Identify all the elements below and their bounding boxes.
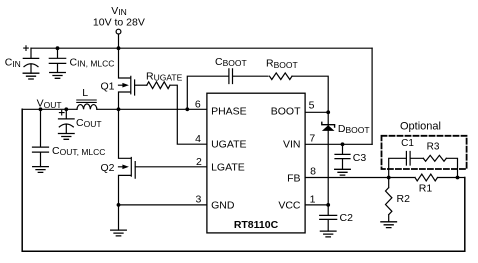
- svg-text:C1: C1: [401, 138, 414, 149]
- ground C2: [320, 231, 336, 237]
- capacitor COUT: [59, 109, 75, 133]
- node junction FB: [387, 176, 391, 180]
- wire PHASE rail left: [22, 108, 77, 110]
- svg-text:VIN: VIN: [111, 5, 127, 17]
- node junction COUT MLCC: [39, 107, 43, 111]
- node junction R1 right: [456, 176, 460, 180]
- svg-text:Optional: Optional: [400, 120, 441, 132]
- inductor L: [77, 104, 97, 109]
- svg-text:VCC: VCC: [278, 199, 301, 211]
- wire FB node to loop corner: [458, 177, 465, 179]
- ground R2: [381, 222, 397, 228]
- node junction VCC: [326, 203, 330, 207]
- svg-text:GND: GND: [211, 199, 235, 211]
- svg-text:3: 3: [195, 194, 201, 206]
- ground COUT: [59, 134, 75, 140]
- capacitor CIN,MLCC: [49, 48, 65, 72]
- svg-text:COUT, MLCC: COUT, MLCC: [52, 145, 105, 157]
- resistor R3: [423, 155, 446, 161]
- transistor Q1: [119, 48, 135, 109]
- svg-text:PHASE: PHASE: [211, 106, 247, 118]
- ground CIN,MLCC: [50, 73, 66, 79]
- wire PHASE rail to pin6: [97, 108, 207, 110]
- svg-text:R3: R3: [427, 141, 440, 152]
- svg-text:10V to 28V: 10V to 28V: [93, 17, 145, 29]
- node junction GND: [117, 203, 121, 207]
- node junction CBOOT: [185, 107, 189, 111]
- svg-text:BOOT: BOOT: [271, 106, 301, 118]
- svg-text:RBOOT: RBOOT: [266, 58, 298, 70]
- svg-text:LGATE: LGATE: [211, 161, 245, 173]
- svg-text:FB: FB: [287, 172, 300, 184]
- svg-text:DBOOT: DBOOT: [338, 123, 370, 135]
- node junction VIN: [117, 46, 121, 50]
- node VIN terminal: [116, 29, 121, 34]
- svg-text:C2: C2: [340, 212, 354, 224]
- svg-text:Q2: Q2: [100, 162, 114, 174]
- svg-text:4: 4: [195, 133, 201, 145]
- svg-text:R1: R1: [419, 183, 433, 195]
- node junction BOOT: [326, 110, 330, 114]
- wire pin1 VCC stub: [305, 204, 328, 206]
- wire VIN stub: [118, 34, 120, 48]
- resistor R1: [389, 174, 458, 181]
- capacitor C2: [320, 205, 337, 231]
- svg-text:L: L: [82, 87, 88, 99]
- wire pin5 stub: [305, 111, 328, 113]
- wire BOOT to VCC vertical: [327, 112, 329, 205]
- capacitor CBOOT: [187, 69, 268, 110]
- svg-text:RUGATE: RUGATE: [146, 71, 183, 83]
- wire pin3 GND line: [119, 204, 207, 206]
- optional dashed box: [382, 136, 467, 169]
- capacitor COUT,MLCC: [33, 109, 49, 166]
- capacitor C1: [389, 152, 424, 178]
- wire VIN top rail: [31, 47, 372, 49]
- ground Q2 source: [118, 205, 120, 230]
- svg-text:5: 5: [309, 99, 315, 111]
- svg-text:Q1: Q1: [100, 80, 114, 92]
- svg-text:VOUT: VOUT: [37, 98, 62, 110]
- transistor Q2: [119, 109, 136, 205]
- ground COUT,MLCC: [33, 167, 49, 173]
- IC U1 RT8110C box: [207, 93, 305, 233]
- svg-text:R2: R2: [397, 193, 411, 205]
- ground CIN: [23, 73, 39, 79]
- svg-text:CIN, MLCC: CIN, MLCC: [70, 56, 115, 68]
- wire pin8 FB line: [305, 177, 389, 179]
- svg-text:CBOOT: CBOOT: [215, 56, 247, 68]
- resistor R2: [386, 178, 392, 222]
- resistor RBOOT: [270, 73, 293, 80]
- wire RUGATE to UGATE pin4: [170, 85, 207, 144]
- capacitor CIN: [23, 48, 38, 73]
- node junction CIN MLCC: [56, 46, 60, 50]
- svg-text:6: 6: [195, 98, 201, 110]
- svg-text:8: 8: [310, 166, 316, 178]
- svg-text:COUT: COUT: [76, 117, 102, 129]
- svg-text:VIN: VIN: [283, 139, 301, 151]
- svg-text:C3: C3: [353, 152, 367, 164]
- ground C3: [335, 169, 351, 175]
- node junction COUT: [64, 107, 68, 111]
- capacitor C3: [341, 142, 345, 146]
- svg-text:UGATE: UGATE: [211, 139, 246, 151]
- wire R3 to output node: [446, 158, 457, 177]
- resistor RUGATE: [147, 82, 170, 89]
- wire right drop to VIN pin: [371, 48, 373, 144]
- svg-text:7: 7: [309, 133, 315, 145]
- wire pin7 line: [305, 143, 372, 145]
- svg-text:1: 1: [310, 194, 316, 206]
- svg-text:RT8110C: RT8110C: [234, 219, 279, 231]
- wire outer feedback loop: [22, 109, 465, 251]
- diode DBOOT: [322, 122, 335, 127]
- wire RBOOT to BOOT pin5: [292, 76, 328, 112]
- svg-text:2: 2: [196, 156, 202, 168]
- node junction phase: [117, 107, 121, 111]
- svg-text:CIN: CIN: [5, 57, 21, 69]
